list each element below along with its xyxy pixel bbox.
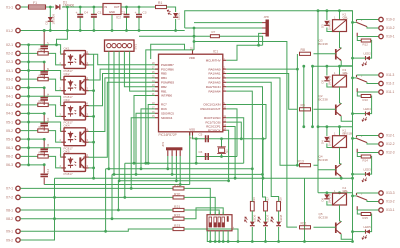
wire base resistor R9 [297,108,336,110]
resistor R6 [38,155,49,158]
junction ground rail LED1 [174,29,177,32]
wire X3-1 row [20,71,61,80]
common emitter vertical wire [93,54,95,178]
svg-text:D2: D2 [45,20,49,24]
wire trunk continue [352,232,354,240]
wire VDD route [146,50,193,163]
junction gnd row163 [195,162,198,165]
capacitor C2 [124,15,130,17]
wire contact NO [357,74,379,76]
terminal X7-1 [16,186,20,190]
junction C3 top [138,6,141,9]
capacitor C10 lead [43,114,45,131]
junction X2-1 common [27,43,30,46]
svg-text:RC1/T1OSI: RC1/T1OSI [206,120,221,124]
wire RC6 link [141,109,155,169]
svg-text:R7: R7 [212,30,216,34]
svg-text:R3: R3 [39,74,43,78]
wire contact COM [367,82,379,83]
relay K4 contact [357,193,368,210]
wire ground spur to JP8 [185,28,262,50]
wire X2-1 row [20,45,61,54]
svg-text:X1-1: X1-1 [6,5,13,9]
wire OK2 collector to IC [89,69,159,80]
ground rail bottom [207,231,352,242]
svg-text:OUT: OUT [114,5,120,9]
junction RC2 bus178 [234,177,237,180]
svg-text:R19: R19 [174,183,180,187]
crystal Q1 [218,148,224,152]
terminal X3-1 [16,68,20,72]
junction cap C8 top [43,61,46,64]
svg-text:D4: D4 [321,140,325,144]
svg-text:C7: C7 [46,42,50,46]
transistor Q3 BC338 [335,49,337,60]
wire emitter to bus [340,177,342,179]
svg-text:OK5: OK5 [64,149,70,153]
wire R16 to LED6 [251,211,253,222]
wire trunk continue [352,174,354,182]
svg-text:JP8: JP8 [264,15,270,19]
svg-text:C4: C4 [84,11,88,15]
junction X5-1 common [27,121,30,124]
relay K1 FRS1B coil [333,136,347,148]
ground rail of power section [20,30,184,32]
junction RC5 row [135,173,138,176]
junction led trunk [351,57,354,60]
junction emitter common OK2 [92,89,95,92]
junction RC1 oscrow [240,137,243,140]
optocoupler OK2 PC817 [64,76,86,94]
junction ground rail C3 [138,29,141,32]
junction emitter common OK4 [92,141,95,144]
transistor Q2 BC338 [335,105,337,116]
terminal X9-1 [16,229,20,233]
capacitor C8 lead [43,62,45,79]
svg-text:RC7: RC7 [161,103,167,107]
junction switch trunk [351,77,354,80]
wire VDD spur join [193,49,195,51]
resistor R21 [173,208,184,211]
wire relay rail K4 [318,193,353,232]
junction R7 vdd [193,35,196,38]
wire C4 vertical [79,7,81,31]
terminal X4-3 [16,111,20,115]
wire contact COM [367,143,379,144]
junction rail K3 [311,65,314,68]
wire OK3 pin3 to common [89,115,94,117]
svg-text:R14: R14 [363,159,369,163]
node junction on +12V at D2 branch [49,6,52,9]
junction dip to ground [218,240,221,243]
junction R11 feed left [193,40,196,43]
wire X2-3 row [20,61,44,63]
wire JP2 pin2 down [171,156,173,174]
wire R12 feed [357,37,371,59]
svg-text:MCLR/THV: MCLR/THV [206,59,221,63]
capacitor C7 lead [43,31,45,54]
junction rail diode K4 [326,191,329,194]
common input return vertical wire [28,45,30,165]
wire LED5 to trunk [353,231,366,233]
junction cap C12 top [43,163,46,166]
junction C4 top [79,6,82,9]
wire X5-2 row [20,131,61,143]
svg-text:R17: R17 [265,197,269,203]
terminal X12-2 [379,142,383,146]
wire distribution vertical A [304,178,306,241]
wire coil top K2 [339,11,341,20]
svg-text:RB5: RB5 [161,72,167,76]
wire X4-1 row [20,96,61,105]
svg-text:1N5908: 1N5908 [52,14,56,25]
svg-text:X4-3: X4-3 [6,112,13,116]
junction row168 R16 [251,167,254,170]
wire SV1 pin3 to row180 [118,51,120,181]
wire vert318 [317,11,319,193]
wire R21 out [184,210,219,215]
wire X6-3 row [20,164,44,166]
svg-text:LED5: LED5 [364,225,372,229]
svg-text:X4-2: X4-2 [6,103,13,107]
svg-text:X5-3: X5-3 [6,137,13,141]
capacitor C11 lead [43,139,45,156]
junction rail diode K3 [326,65,329,68]
svg-text:PC817: PC817 [64,172,74,176]
svg-text:X5-1: X5-1 [6,120,13,124]
svg-text:R12: R12 [363,43,369,47]
svg-text:X6-2: X6-2 [6,155,13,159]
junction JP2 pin2 row [171,173,174,176]
diode D4 1N4148 [324,137,329,141]
junction rail coil K4 [338,191,341,194]
svg-text:OK3: OK3 [64,98,70,102]
wire LED2 to trunk [353,57,366,59]
junction rail coil K1 [338,125,341,128]
junction dip to ground [209,240,212,243]
capacitor C9 [40,98,48,100]
LED LED6 [250,222,255,226]
wire OK4 pin3 to common [89,141,94,143]
junction cap C7 top [43,29,46,32]
wire X9-2 to common [20,178,54,240]
junction B rail3 [311,125,314,128]
wire collector up [340,48,342,49]
wire emitter to trunk [341,116,352,121]
junction switch trunk [351,137,354,140]
wire C1 vertical [93,7,95,31]
resistor R7 [210,35,219,38]
svg-text:RA5/AN4: RA5/AN4 [208,89,220,93]
junction RC7 row [147,162,150,165]
wire OSC2 route [226,109,237,157]
junction ground rail D2 [49,29,52,32]
wire RC1 route to osc row [226,122,241,139]
resistor R5 [38,129,49,132]
terminal X1-1 [16,5,20,9]
resistor R4 [38,103,49,106]
wire X4-3 row [20,112,44,114]
wire RA2 route to R13 [226,78,294,165]
junction led trunk [351,173,354,176]
wire diode D5 branch [327,66,340,87]
svg-text:X13-3: X13-3 [386,191,395,195]
svg-text:C3: C3 [143,11,147,15]
diode D6 1N4148 [324,194,329,198]
svg-text:OK4: OK4 [64,124,70,128]
wire LED7 to ground [265,227,267,242]
wire coil bottom to collector [340,32,341,48]
capacitor C1 [91,15,97,17]
terminal X10-2 [379,26,383,30]
wire coil bottom to collector [340,87,341,103]
terminal X10-3 [379,17,383,21]
junction riser ground [237,240,240,243]
wire RC2 route to bus178 [226,127,235,179]
svg-text:JP2: JP2 [161,141,165,147]
svg-text:X12-1: X12-1 [386,134,395,138]
junction row174 sv1p2 [113,173,116,176]
svg-text:R23: R23 [174,224,180,228]
junction ground rail x67 [66,29,69,32]
wire +12V relay rail [185,11,353,28]
wire row y163 [125,163,244,197]
svg-text:Q1: Q1 [225,149,229,153]
connector JP8 [266,20,269,37]
terminal X3-2 [16,77,20,81]
svg-text:X6-3: X6-3 [6,163,13,167]
wire coil bottom to collector [340,148,341,164]
terminal X6-1 [16,146,20,150]
svg-text:LED2: LED2 [364,52,372,56]
capacitor C12 [40,174,48,176]
wire SV1 pin2 to row174 [113,51,115,174]
svg-text:RA4/T0CKI: RA4/T0CKI [206,85,221,89]
svg-text:OSC1/CLKIN: OSC1/CLKIN [203,103,220,107]
wire RC5 link [136,113,155,174]
junction trunk ground [351,240,354,243]
junction rail cap C7 [43,29,46,32]
svg-text:R11: R11 [301,222,307,226]
wire contact NO [357,19,379,21]
junction emitter bus bottom [92,177,95,180]
wire RC3 route down [226,130,228,181]
junction row180 sv1p3 [118,179,121,182]
junction VDD row163 [144,162,147,165]
terminal X5-1 [16,120,20,124]
wire RA4 route to R17 [226,87,265,202]
svg-text:+: + [135,11,137,15]
svg-text:OK1: OK1 [64,46,70,50]
transistor Q5 BC338 [335,223,337,234]
svg-text:RA2/AN2: RA2/AN2 [208,76,220,80]
capacitor C11 [40,149,48,151]
svg-text:R15: R15 [363,216,369,220]
svg-text:1N4148: 1N4148 [328,75,332,85]
capacitor C5 [206,135,209,142]
capacitor C7 [40,46,48,48]
wire RC4 link [131,118,155,189]
dip switch S1 [207,215,232,231]
wire R14 feed [357,153,371,175]
junction row168 sv1p1 [107,167,110,170]
wire R11 feed line [194,42,297,228]
junction X8-2 common [53,217,56,220]
svg-text:X2-3: X2-3 [6,60,13,64]
svg-text:X6-1: X6-1 [6,146,13,150]
junction cap C10 top [43,112,46,115]
junction led trunk [351,230,354,233]
terminal X10-1 [379,34,383,38]
svg-text:PIC16F872P: PIC16F872P [159,133,177,137]
capacitor C9 lead [43,88,45,105]
wire vert263 row to bus [262,139,264,178]
junction dip to ground [222,240,225,243]
junction RA0 vert297 [296,68,299,71]
wire LED6 to ground [251,227,253,242]
resistor R17 [264,201,268,211]
wire crystal bottom stub [221,154,223,157]
svg-text:R2: R2 [39,48,43,52]
wire RC0 route to row163 [226,118,243,164]
resistor R18 [277,201,281,211]
svg-text:RC3/SCK: RC3/SCK [208,128,221,132]
svg-text:+: + [76,11,78,15]
wire aux step near VDD [151,44,185,59]
wire VSS row with C5 [193,136,267,164]
relay K3 G6L coil [333,75,347,87]
wire crystal top stub [221,139,223,147]
resistor R16 [250,201,254,211]
wire contact COM [367,200,379,201]
wire RA5 route to R16 [226,91,252,201]
wire collector up [340,103,342,104]
wire X4-2 row [20,105,61,117]
wire X6-2 row [20,156,61,168]
svg-text:C12: C12 [46,168,50,174]
relay K4 G6L coil [333,193,347,205]
terminal X11-1 [379,90,383,94]
terminal X2-3 [16,60,20,64]
resistor R20 [173,196,184,199]
wire relay rail K1 [318,127,353,174]
terminal X3-3 [16,85,20,89]
junction rail diode K2 [326,9,329,12]
terminal X13-3 [379,191,383,195]
wire R23 out [184,229,238,242]
transistor Q4 BC338 [335,165,337,176]
svg-text:INT/RB0: INT/RB0 [161,94,172,98]
wire switch common [353,137,357,139]
junction row174 RA4 [261,173,264,176]
wire R19 out [184,188,210,214]
optocoupler OK1 PC817 [64,51,86,69]
resistor R12 [361,39,371,42]
svg-text:X13-2: X13-2 [386,200,395,204]
terminal X2-2 [16,51,20,55]
LED LED1 [173,13,178,17]
wire contact NO [357,192,379,194]
junction C1 top [93,6,96,9]
junction led trunk [351,112,354,115]
wire OK2 pin3 to common [89,90,94,92]
relay K1 contact [357,136,368,153]
svg-text:IC2: IC2 [116,16,121,20]
wire X5-3 row [20,138,44,140]
svg-text:PGC/RB6: PGC/RB6 [161,67,174,71]
wire R20 out [184,197,215,214]
wire relay rail K2 [318,11,353,58]
svg-text:X13-1: X13-1 [386,208,395,212]
svg-text:R1: R1 [158,1,162,5]
capacitor C8 [40,72,48,74]
svg-text:R8: R8 [301,48,305,52]
wire RC7 link [148,105,155,164]
svg-text:SV1: SV1 [134,43,138,49]
junction rail coil K3 [338,65,341,68]
wire LED8 to ground [278,227,280,242]
junction switch trunk [351,195,354,198]
wire OK3 collector to IC [89,74,159,106]
wire trunk continue [352,58,354,66]
wire JP8 top pin [194,22,262,24]
junction branch X2-1 [55,43,58,46]
optocoupler OK5 PC817 [64,154,86,172]
junction cap C11 top [43,138,46,141]
svg-text:PGD/RB7: PGD/RB7 [161,63,174,67]
diode D2 1N5908 transient suppressor [48,17,53,21]
junction bus trunk [351,177,354,180]
junction ground rail C1 [93,29,96,32]
svg-text:LED4: LED4 [364,107,372,111]
wire OSC1 route [226,105,266,139]
svg-text:LED3: LED3 [364,168,372,172]
wire diode D6 branch [327,193,340,205]
capacitor C3 electrolytic [136,15,142,17]
junction RC6 row [140,167,143,170]
svg-text:X11-1: X11-1 [386,90,394,94]
svg-text:R21: R21 [174,205,180,209]
svg-text:BC338: BC338 [319,97,329,101]
svg-text:OK2: OK2 [64,72,70,76]
svg-text:X7-1: X7-1 [6,187,13,191]
junction rail coil K2 [338,9,341,12]
wire coil top K1 [339,127,341,136]
svg-text:X2-2: X2-2 [6,52,13,56]
svg-text:X1-2: X1-2 [6,29,13,33]
wire SV1 pin1 to row168 [108,51,110,169]
wire base resistor R11 [297,226,336,228]
junction dist A ground [303,240,306,243]
svg-text:X8-2: X8-2 [6,217,13,221]
terminal X7-2 [16,195,20,199]
wire X5-1 row [20,122,61,131]
terminal X6-3 [16,163,20,167]
svg-text:X12-3: X12-3 [386,151,395,155]
svg-text:LED8: LED8 [279,214,283,222]
wire SV1 pin5 to RB1 [130,51,159,91]
svg-text:RA0/AN0: RA0/AN0 [208,67,220,71]
wire collector up [340,221,342,222]
wire JP2 pin3 down [175,156,177,181]
wire branch x67 down to opto area [57,7,68,45]
wire X3-2 row [20,79,61,91]
terminal X5-3 [16,137,20,141]
junction ground rail IC2 [111,29,114,32]
terminal X11-2 [379,81,383,85]
wire contact NC [357,209,378,211]
resistor R13 [300,164,311,167]
